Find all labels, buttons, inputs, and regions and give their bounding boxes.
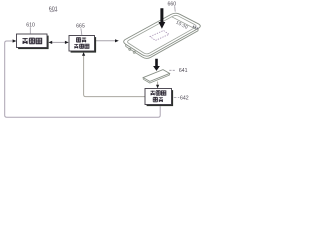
wire: touch panel to sensor module <box>157 82 159 86</box>
leader 665 <box>81 28 82 35</box>
display driver box 665 <box>69 36 95 52</box>
display driver box 665 shadow <box>71 37 97 53</box>
device 660: side face (thickness) <box>126 29 198 59</box>
text 驱动器 <box>74 44 89 48</box>
device status bar line <box>172 17 197 30</box>
wire: sensor-module to processor loop (down, left rail, up, into processor) <box>5 41 161 117</box>
leader 641 dash <box>169 69 175 71</box>
arrowhead into processor left <box>13 39 17 42</box>
sensor module box 642 <box>145 89 172 105</box>
svg-text:641: 641 <box>179 68 188 74</box>
dashed hover region on screen <box>150 31 169 41</box>
sensor module box 642 shadow <box>147 90 174 106</box>
text 传感器 <box>151 91 166 96</box>
touch panel slab 641 <box>143 70 169 82</box>
svg-text:642: 642 <box>180 96 189 102</box>
text 处理器 <box>22 38 41 44</box>
wire: display driver to device arrow <box>95 40 115 42</box>
device 660: outer outline <box>124 13 201 56</box>
device home button icons <box>129 48 131 50</box>
leader 610 <box>29 27 31 33</box>
wire: sensor-module to display-driver (left then up) <box>84 55 145 97</box>
processor box 610 <box>17 34 48 48</box>
arrowhead down into sensor module <box>156 85 159 89</box>
touch panel slab 641 thickness <box>143 73 169 83</box>
stylus pen arrow 660 <box>159 8 166 29</box>
text 显示 <box>76 38 86 43</box>
status bar icons <box>193 25 199 29</box>
arrowhead up into display driver bottom <box>82 52 85 56</box>
leader 660 <box>174 6 177 11</box>
device 660: inner bezel <box>128 15 197 53</box>
label 601 underline <box>50 11 57 12</box>
wire: processor <-> display driver double arrow <box>52 41 66 43</box>
black arrow device to touch panel <box>153 59 160 71</box>
leader 642 dash <box>174 97 180 99</box>
processor box U610 shadow <box>18 36 48 50</box>
text 模块 <box>153 97 163 102</box>
